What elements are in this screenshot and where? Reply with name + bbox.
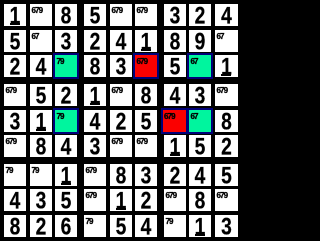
cell r3c8 candidates 679	[215, 84, 238, 106]
cell r3c1 value 5	[30, 84, 52, 106]
cell r6c5 value 3	[135, 164, 157, 186]
cell r8c3 candidates 79	[84, 215, 106, 237]
cell r8c7 value 1	[189, 215, 211, 237]
cell r7c8 candidates 679	[215, 189, 238, 211]
cell r4c7 candidates 67 (green)	[187, 108, 213, 134]
cell r2c5 candidates 679 (red)	[133, 53, 159, 79]
cell r2c4 value 3	[110, 55, 132, 77]
sudoku board	[0, 0, 241, 241]
cell r1c3 value 2	[84, 30, 106, 52]
cell r7c3 candidates 679	[84, 189, 106, 211]
cell r4c8 value 8	[215, 110, 238, 132]
cell r7c4 value 1	[110, 189, 132, 211]
cell r6c0 candidates 79	[4, 164, 26, 186]
cell r4c0 value 3	[4, 110, 26, 132]
cell r6c8 value 5	[215, 164, 238, 186]
cell r6c6 value 2	[164, 164, 186, 186]
cell r3c7 value 3	[189, 84, 211, 106]
cell r0c8 value 4	[215, 4, 238, 26]
cell r4c4 value 2	[110, 110, 132, 132]
cell r2c0 value 2	[4, 55, 26, 77]
cell r6c4 value 8	[110, 164, 132, 186]
cell r7c5 value 2	[135, 189, 157, 211]
cell r5c5 candidates 679	[135, 135, 157, 157]
cell r8c8 value 3	[215, 215, 238, 237]
cell r0c5 candidates 679	[135, 4, 157, 26]
cell r6c1 candidates 79	[30, 164, 52, 186]
cell r6c2 value 1	[55, 164, 77, 186]
cell r5c2 value 4	[55, 135, 77, 157]
cell r8c6 candidates 79	[164, 215, 186, 237]
cell r5c1 value 8	[30, 135, 52, 157]
cell r1c2 value 3	[55, 30, 77, 52]
cell r5c7 value 5	[189, 135, 211, 157]
cell r3c6 value 4	[164, 84, 186, 106]
cell r2c1 value 4	[30, 55, 52, 77]
cell r8c4 value 5	[110, 215, 132, 237]
cell r5c4 candidates 679	[110, 135, 132, 157]
cell r8c2 value 6	[55, 215, 77, 237]
cell r6c3 candidates 679	[84, 164, 106, 186]
cell r0c7 value 2	[189, 4, 211, 26]
cell r8c5 value 4	[135, 215, 157, 237]
cell r2c8 value 1	[215, 55, 238, 77]
cell r3c2 value 2	[55, 84, 77, 106]
cell r3c0 candidates 679	[4, 84, 26, 106]
cell r8c0 value 8	[4, 215, 26, 237]
cell r2c6 value 5	[164, 55, 186, 77]
cell r7c6 candidates 679	[164, 189, 186, 211]
cell r0c4 candidates 679	[110, 4, 132, 26]
cell r3c4 candidates 679	[110, 84, 132, 106]
cell r5c3 value 3	[84, 135, 106, 157]
cell r0c1 candidates 679	[30, 4, 52, 26]
cell r2c2 candidates 79 (green)	[53, 53, 79, 79]
cell r7c7 value 8	[189, 189, 211, 211]
cell r1c6 value 8	[164, 30, 186, 52]
cell r7c2 value 5	[55, 189, 77, 211]
cell r6c7 value 4	[189, 164, 211, 186]
cell r4c2 candidates 79 (green)	[53, 108, 79, 134]
cell r0c6 value 3	[164, 4, 186, 26]
cell r5c6 value 1	[164, 135, 186, 157]
cell r0c0 value 1	[4, 4, 26, 26]
cell r4c1 value 1	[30, 110, 52, 132]
cell r4c6 candidates 679 (red)	[161, 108, 189, 134]
cell r2c3 value 8	[84, 55, 106, 77]
cell r8c1 value 2	[30, 215, 52, 237]
cell r1c8 candidates 67	[215, 30, 238, 52]
cell r5c0 candidates 679	[4, 135, 26, 157]
cell r7c1 value 3	[30, 189, 52, 211]
cell r4c3 value 4	[84, 110, 106, 132]
cell r1c5 value 1	[135, 30, 157, 52]
cell r0c3 value 5	[84, 4, 106, 26]
cell r1c0 value 5	[4, 30, 26, 52]
cell r3c3 value 1	[84, 84, 106, 106]
cell r7c0 value 4	[4, 189, 26, 211]
cell r5c8 value 2	[215, 135, 238, 157]
cell r3c5 value 8	[135, 84, 157, 106]
cell r0c2 value 8	[55, 4, 77, 26]
cell r1c1 candidates 67	[30, 30, 52, 52]
cell r2c7 candidates 67 (green)	[187, 53, 213, 79]
cell r1c4 value 4	[110, 30, 132, 52]
cell r1c7 value 9	[189, 30, 211, 52]
cell r4c5 value 5	[135, 110, 157, 132]
